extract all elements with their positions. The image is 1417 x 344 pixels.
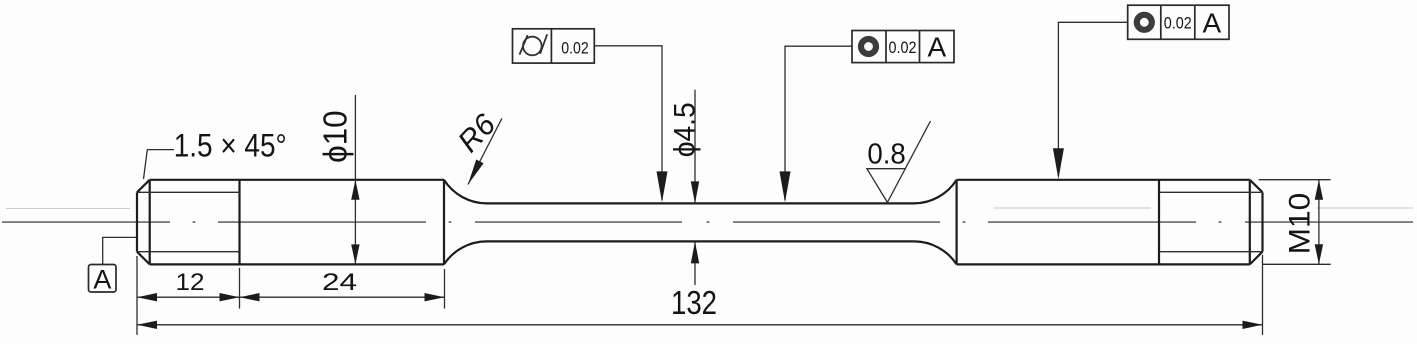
- arrowheads M10: [1315, 180, 1323, 200]
- svg-text:0.8: 0.8: [867, 138, 906, 170]
- dimension line M10: [1318, 180, 1320, 265]
- svg-text:A: A: [927, 32, 946, 63]
- left face: [136, 192, 138, 251]
- fillet top right: [914, 180, 957, 204]
- GDT frame cylindricity: [513, 29, 595, 63]
- fillet bottom right: [914, 241, 957, 264]
- datum A box: [89, 265, 117, 293]
- left chamfer top: [137, 180, 150, 193]
- runout symbol right: [1134, 12, 1155, 33]
- wire faint scan artifact: [6, 207, 1413, 210]
- fillet R6 bottom left: [444, 241, 487, 264]
- right face: [1261, 192, 1263, 251]
- arrowheads dimension 24: [240, 293, 260, 301]
- centerline axis: [2, 221, 1413, 223]
- part outline: [137, 180, 1263, 265]
- svg-text:1.5 × 45°: 1.5 × 45°: [174, 128, 287, 164]
- runout symbol middle: [858, 36, 879, 57]
- svg-text:132: 132: [671, 284, 717, 321]
- arrowheads dia10: [351, 180, 359, 200]
- gauge top edge: [487, 202, 914, 204]
- fillet R6 top left: [444, 180, 487, 204]
- bottom edge left grip: [150, 263, 444, 265]
- svg-text:12: 12: [176, 269, 205, 296]
- cylindricity symbol: [520, 34, 548, 55]
- svg-text:ϕ10: ϕ10: [317, 110, 354, 163]
- leader R6: [468, 118, 502, 184]
- right shoulder: [955, 180, 957, 265]
- svg-text:0.02: 0.02: [561, 38, 589, 57]
- left chamfer vertical: [149, 180, 151, 265]
- arrowhead middle leader: [780, 171, 791, 202]
- dimension line 132: [137, 324, 1263, 326]
- svg-text:A: A: [1202, 7, 1221, 38]
- left shoulder: [443, 180, 445, 265]
- right thread boundary: [1158, 180, 1160, 265]
- arrowhead cylindricity leader: [657, 171, 668, 202]
- datum A leader: [103, 237, 137, 264]
- gauge bottom edge: [487, 240, 914, 242]
- right chamfer bottom: [1250, 252, 1263, 265]
- arrowheads dia4.5: [691, 181, 699, 203]
- top edge right grip: [957, 179, 1250, 181]
- svg-text:A: A: [93, 265, 111, 295]
- arrowhead R6 leader: [468, 160, 484, 185]
- bottom edge right grip: [957, 263, 1250, 265]
- top edge left grip: [150, 179, 444, 181]
- dimension line dia4.5: [694, 90, 696, 285]
- dimension line 12 and 24: [137, 296, 445, 298]
- GDT frame runout right: [1128, 5, 1229, 39]
- right chamfer top: [1250, 180, 1263, 193]
- dimension line dia10: [354, 95, 356, 264]
- svg-text:M10: M10: [1284, 193, 1317, 255]
- GDT frame runout middle: [852, 31, 954, 63]
- leader runout frame middle: [785, 46, 852, 200]
- arrowhead right leader: [1053, 148, 1064, 179]
- arrowheads dimension 132: [137, 321, 157, 329]
- svg-text:0.02: 0.02: [889, 38, 917, 57]
- thread root lines: [137, 192, 1263, 251]
- left chamfer bottom: [137, 252, 150, 265]
- extension lines: [137, 180, 1331, 335]
- roughness symbol: [867, 121, 931, 202]
- left thread boundary: [238, 180, 240, 265]
- leader runout frame right: [1058, 22, 1127, 176]
- right chamfer vertical: [1249, 180, 1251, 265]
- arrowheads dimension 12: [137, 293, 157, 301]
- svg-text:0.02: 0.02: [1164, 14, 1192, 33]
- svg-text:24: 24: [322, 269, 357, 296]
- svg-text:ϕ4.5: ϕ4.5: [669, 102, 702, 157]
- chamfer label leader: [144, 150, 175, 179]
- leader cylindricity frame: [594, 46, 662, 200]
